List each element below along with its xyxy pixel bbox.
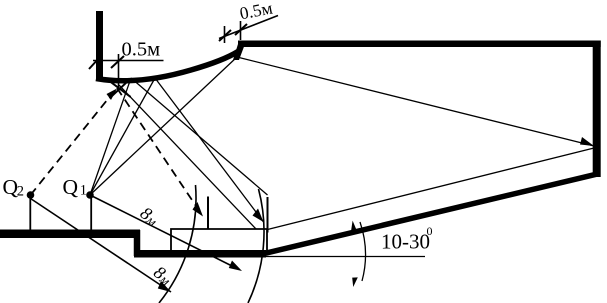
svg-text:Q: Q	[63, 175, 79, 199]
svg-text:0: 0	[427, 224, 433, 238]
svg-text:0.5м: 0.5м	[122, 39, 161, 61]
svg-text:8м: 8м	[137, 203, 163, 230]
svg-text:2: 2	[17, 184, 24, 200]
svg-text:1: 1	[80, 183, 87, 199]
svg-text:10-30: 10-30	[381, 230, 430, 254]
